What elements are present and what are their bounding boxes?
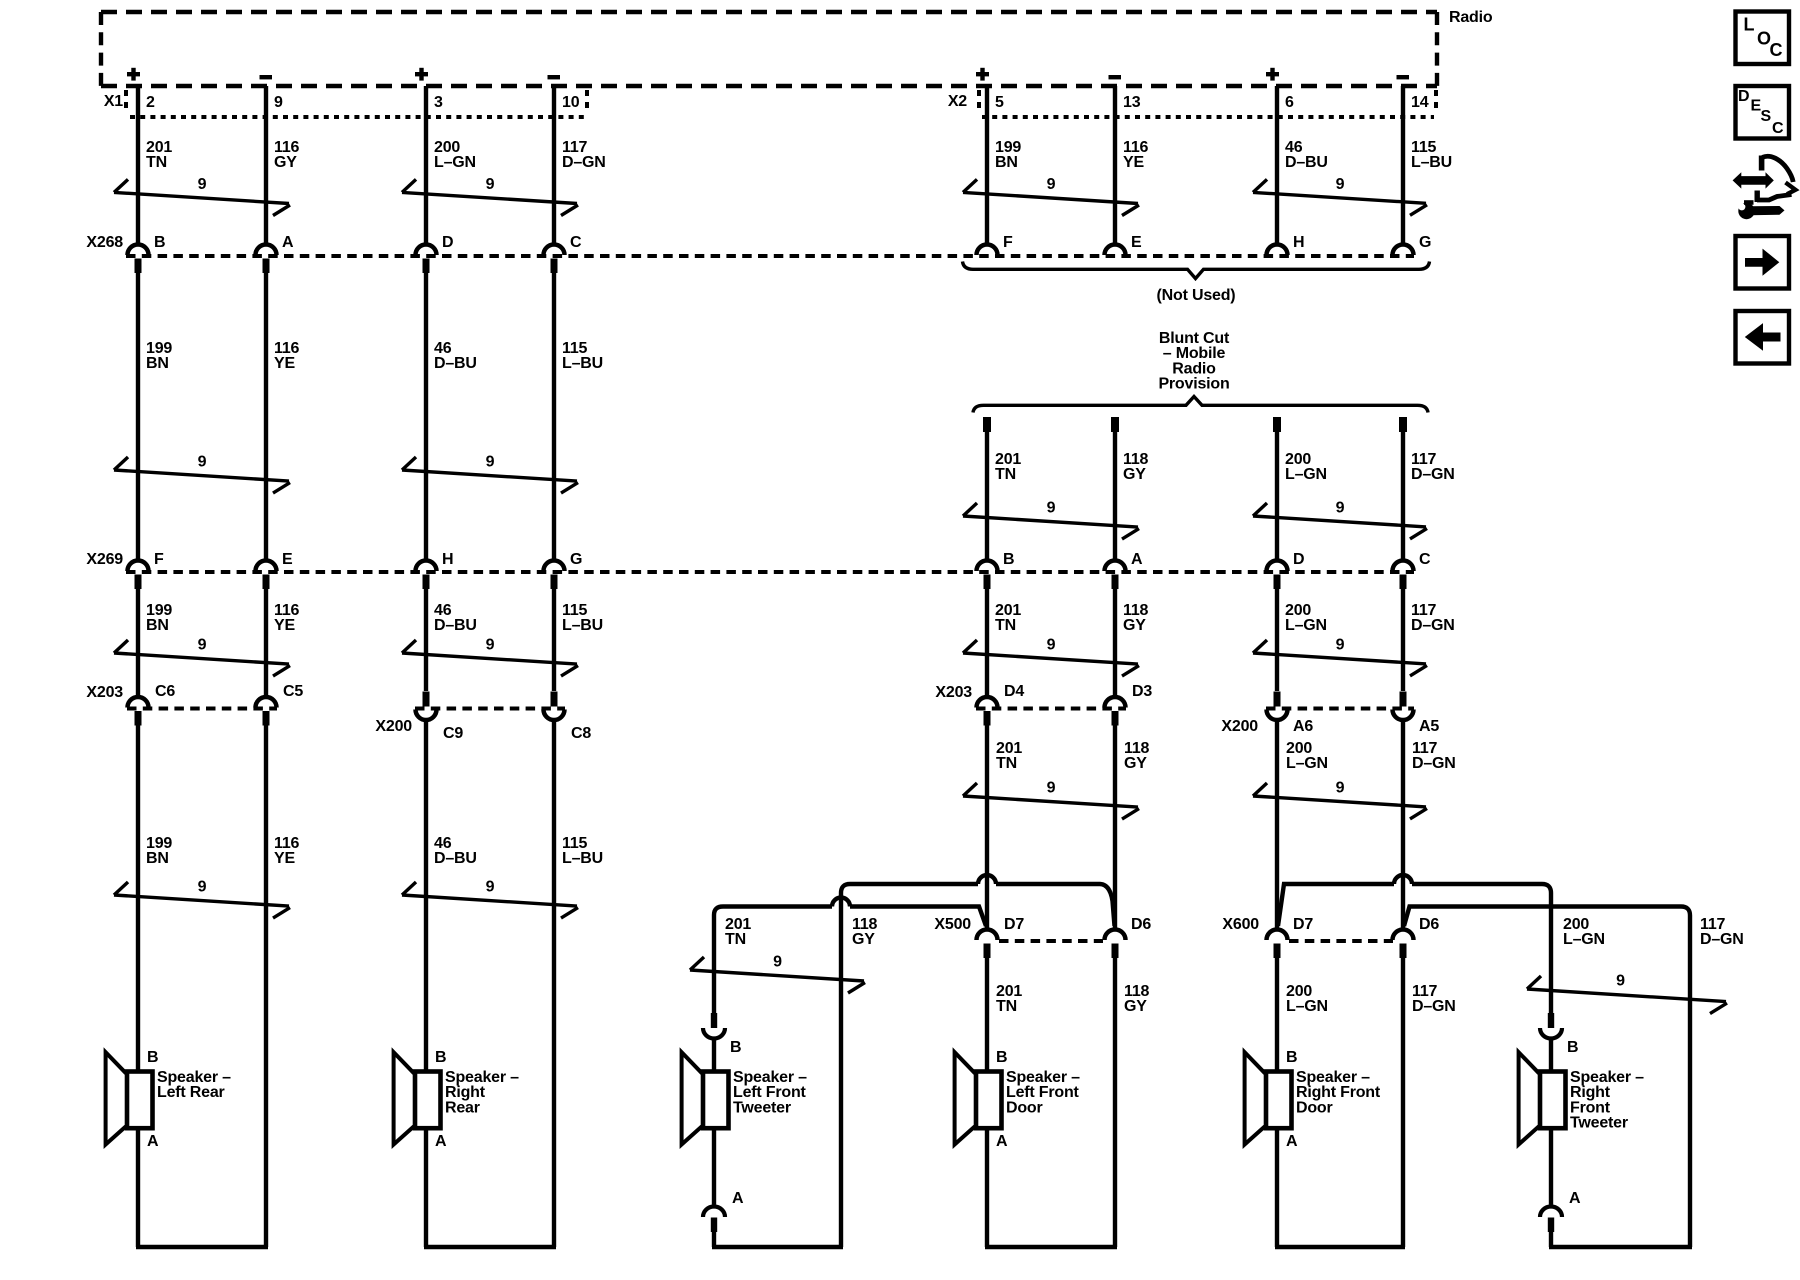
wire label 200 L&#8211;GN [1285, 602, 1327, 634]
svg-text:BN: BN [146, 617, 169, 634]
wire 115 L&#8211;BU from X1/X2 pin 14 to X268 [1401, 86, 1405, 243]
svg-text:TN: TN [995, 466, 1016, 483]
svg-text:L–GN: L–GN [1286, 755, 1328, 772]
svg-text:D–BU: D–BU [1285, 154, 1328, 171]
svg-text:GY: GY [274, 154, 297, 171]
twisted pair symbol [1527, 973, 1727, 1014]
svg-text:BN: BN [146, 850, 169, 867]
connector X269 pin D [1267, 551, 1305, 589]
pin number 13 [1123, 94, 1141, 111]
wire 200 L&#8211;GN from X500/X600 to door speaker [1275, 958, 1279, 1072]
svg-text:H: H [442, 551, 453, 568]
wire label 116 YE [274, 835, 300, 867]
polarity - above pin 13 [1109, 75, 1122, 79]
wire label 200 L-GN (right tweeter) [1563, 916, 1605, 948]
svg-text:Left Rear: Left Rear [157, 1084, 225, 1101]
connector X600 pin D6 [1393, 916, 1440, 958]
svg-text:9: 9 [1616, 973, 1625, 990]
svg-text:9: 9 [486, 879, 495, 896]
wire 116 YE from X268 to X269 [264, 273, 268, 559]
svg-text:A6: A6 [1293, 718, 1313, 735]
twisted pair symbol [690, 954, 865, 994]
svg-text:C6: C6 [155, 683, 175, 700]
wire label 116 YE [274, 602, 300, 634]
svg-text:TN: TN [725, 931, 746, 948]
wire branch left front tweeter - (118 GY) to X500 D6 [841, 875, 1115, 1247]
svg-text:D–BU: D–BU [434, 617, 477, 634]
connector X600 pin D7 [1267, 916, 1314, 958]
wire label 115 L&#8211;BU [1411, 139, 1452, 171]
twisted pair symbol [963, 500, 1139, 540]
svg-text:L–BU: L–BU [1411, 154, 1452, 171]
connector X600 label [1222, 916, 1259, 933]
speaker - left front tweeter [682, 1052, 808, 1144]
wire 116 YE from X1/X2 pin 13 to X268 [1113, 86, 1117, 243]
connector X269 pin C [1393, 551, 1432, 589]
inline connector break A (left front tweeter) [703, 1190, 744, 1247]
svg-text:9: 9 [274, 94, 283, 111]
connector X203 pin D4 [977, 683, 1025, 726]
connector X200 pin C8 [544, 692, 592, 743]
svg-text:D4: D4 [1004, 683, 1024, 700]
twisted pair symbol [114, 637, 290, 677]
speaker - right front door [1245, 1049, 1381, 1150]
bottom loop wire left rear speaker [136, 1245, 268, 1249]
twisted pair symbol [402, 176, 578, 216]
connector X268 pin B [128, 234, 166, 273]
icon wiring repair (arrows and wrench) [1733, 156, 1796, 220]
polarity - above pin 14 [1397, 75, 1410, 79]
svg-text:9: 9 [1047, 637, 1056, 654]
svg-text:H: H [1293, 234, 1304, 251]
connector X268 label [86, 234, 123, 251]
svg-text:YE: YE [274, 617, 295, 634]
svg-text:GY: GY [1123, 466, 1146, 483]
svg-text:9: 9 [1336, 637, 1345, 654]
svg-text:YE: YE [274, 355, 295, 372]
polarity + above pin 2 [127, 68, 140, 81]
svg-text:D: D [442, 234, 453, 251]
svg-text:L–GN: L–GN [1285, 466, 1327, 483]
svg-text:9: 9 [1336, 176, 1345, 193]
wire 200 L&#8211;GN from X1/X2 pin 3 to X268 [424, 86, 428, 243]
svg-text:5: 5 [995, 94, 1004, 111]
svg-text:9: 9 [1047, 500, 1056, 517]
svg-text:C: C [570, 234, 582, 251]
pin number 14 [1411, 94, 1429, 111]
svg-text:B: B [1286, 1049, 1297, 1066]
wire 201 TN from connector to X500/X600 [985, 723, 989, 928]
svg-text:C8: C8 [571, 725, 591, 742]
svg-text:(Not Used): (Not Used) [1157, 287, 1236, 304]
wire 46 D&#8211;BU from X269 down [424, 589, 428, 691]
svg-text:9: 9 [1047, 176, 1056, 193]
wire 115 L&#8211;BU from X268 to X269 [552, 273, 556, 559]
connector X269 pin H [416, 551, 454, 589]
svg-text:9: 9 [486, 637, 495, 654]
wire label 117 D&#8211;GN [1412, 740, 1456, 772]
svg-text:C5: C5 [283, 683, 303, 700]
svg-text:D: D [1293, 551, 1304, 568]
twisted pair symbol [1253, 637, 1427, 676]
svg-text:A: A [1131, 551, 1143, 568]
twisted pair symbol [963, 780, 1139, 820]
svg-text:9: 9 [486, 176, 495, 193]
connector X268 pin F (not used) [977, 234, 1014, 255]
twisted pair symbol [1253, 780, 1427, 819]
twisted pair symbol [114, 176, 290, 216]
connector X268 pin H (not used) [1267, 234, 1305, 255]
wire label 116 YE [1123, 139, 1149, 171]
bottom loop wire right front door speaker [1275, 1245, 1405, 1249]
svg-text:X200: X200 [1221, 718, 1258, 735]
wire label 117 D&#8211;GN [1412, 983, 1456, 1015]
wire 115 L&#8211;BU from connector to bottom loop [552, 721, 556, 1248]
connector X200 pin A6 [1267, 692, 1314, 736]
svg-text:2: 2 [146, 94, 155, 111]
wire label 115 L&#8211;BU [562, 835, 603, 867]
wire 118 GY from X500/X600 to bottom loop [1113, 958, 1117, 1247]
twisted pair symbol [1253, 176, 1427, 215]
svg-text:D–GN: D–GN [1412, 998, 1456, 1015]
svg-text:YE: YE [274, 850, 295, 867]
wire label 200 L&#8211;GN [1286, 983, 1328, 1015]
wire label 201 TN [996, 983, 1022, 1015]
wire label 201 TN [995, 451, 1021, 483]
svg-text:A: A [732, 1190, 744, 1207]
wire 115 L&#8211;BU from X269 down [552, 589, 556, 691]
not used brace [963, 262, 1430, 279]
svg-text:F: F [1003, 234, 1013, 251]
svg-text:Rear: Rear [445, 1099, 480, 1116]
not used text [1157, 287, 1236, 304]
svg-text:Radio: Radio [1449, 9, 1493, 26]
connector X500 dashed line [999, 939, 1103, 943]
connector X268 pin E (not used) [1105, 234, 1143, 255]
wire 46 D&#8211;BU from X268 to X269 [424, 273, 428, 559]
svg-text:G: G [570, 551, 582, 568]
bottom loop wire left front tweeter [712, 1245, 843, 1249]
svg-text:9: 9 [1336, 780, 1345, 797]
pin number 9 [274, 94, 283, 111]
svg-text:B: B [154, 234, 165, 251]
connector X500 pin D6 [1105, 916, 1152, 958]
polarity + above pin 6 [1266, 68, 1279, 81]
bottom loop wire right front tweeter [1549, 1245, 1692, 1249]
wire 201 TN from X1/X2 pin 2 to X268 [136, 86, 140, 243]
svg-text:A5: A5 [1419, 718, 1439, 735]
svg-text:9: 9 [486, 454, 495, 471]
svg-text:C: C [1419, 551, 1431, 568]
connector X203 label (right) [935, 684, 972, 701]
svg-text:Door: Door [1006, 1099, 1043, 1116]
connector X268 pin C [544, 234, 583, 273]
blunt cut brace [973, 397, 1428, 413]
wire from door speaker to bottom loop [1275, 1128, 1279, 1247]
svg-text:B: B [1567, 1039, 1578, 1056]
twisted pair symbol [114, 454, 290, 494]
wire 200 L&#8211;GN from blunt cut to X269 [1275, 432, 1279, 559]
svg-text:TN: TN [146, 154, 167, 171]
radio label [1449, 9, 1493, 26]
twisted pair symbol [963, 637, 1139, 677]
svg-text:E: E [282, 551, 293, 568]
connector X269 pin G [544, 551, 583, 589]
connector X268 pin G (not used) [1393, 234, 1432, 255]
wire label 201 TN [996, 740, 1022, 772]
wire 201 TN from X269 down [985, 589, 989, 696]
svg-text:L–GN: L–GN [1563, 931, 1605, 948]
svg-text:3: 3 [434, 94, 443, 111]
svg-text:YE: YE [1123, 154, 1144, 171]
svg-text:S: S [1761, 108, 1772, 125]
svg-text:L–BU: L–BU [562, 355, 603, 372]
svg-text:X2: X2 [948, 93, 967, 110]
wire 117 D&#8211;GN from X1/X2 pin 10 to X268 [552, 86, 556, 243]
wire label 199 BN [146, 340, 172, 372]
connector X269 pin A [1105, 551, 1144, 589]
svg-text:D6: D6 [1131, 916, 1151, 933]
svg-text:BN: BN [146, 355, 169, 372]
svg-text:9: 9 [198, 637, 207, 654]
svg-text:D–GN: D–GN [1412, 755, 1456, 772]
pin number 6 [1285, 94, 1294, 111]
polarity + above pin 3 [415, 68, 428, 81]
svg-text:L–GN: L–GN [1286, 998, 1328, 1015]
svg-text:D–GN: D–GN [562, 154, 606, 171]
wire from right front tweeter to break A [1549, 1128, 1553, 1204]
twisted pair symbol [402, 879, 578, 919]
svg-text:A: A [435, 1133, 447, 1150]
connector X269 dashed line [126, 570, 1414, 574]
svg-text:D–BU: D–BU [434, 355, 477, 372]
svg-text:C9: C9 [443, 725, 463, 742]
radio dashed outline box [101, 12, 1437, 86]
svg-text:GY: GY [1124, 998, 1147, 1015]
connector X268 dashed line [126, 254, 1414, 258]
wire 46 D&#8211;BU from X1/X2 pin 6 to X268 [1275, 86, 1279, 243]
wire from break to right front tweeter [1549, 1040, 1553, 1072]
wire label 46 D&#8211;BU [434, 835, 477, 867]
svg-text:GY: GY [1124, 755, 1147, 772]
icon box DESC [1736, 86, 1790, 139]
wire label 46 D&#8211;BU [1285, 139, 1328, 171]
wire label 117 D-GN (right tweeter) [1700, 916, 1744, 948]
svg-text:X269: X269 [86, 551, 123, 568]
svg-text:X200: X200 [375, 718, 412, 735]
wire label 46 D&#8211;BU [434, 340, 477, 372]
connector X200 label (right) [1221, 718, 1258, 735]
svg-text:TN: TN [996, 755, 1017, 772]
svg-text:B: B [730, 1039, 741, 1056]
svg-text:9: 9 [1047, 780, 1056, 797]
svg-text:9: 9 [1336, 500, 1345, 517]
connector X200 dashed line [415, 707, 565, 711]
svg-text:L–BU: L–BU [562, 850, 603, 867]
speaker - right front tweeter [1519, 1052, 1645, 1144]
wire label 118 GY [1123, 451, 1149, 483]
svg-text:X1: X1 [104, 93, 123, 110]
svg-text:D3: D3 [1132, 683, 1152, 700]
wire label 117 D&#8211;GN [1411, 602, 1455, 634]
svg-text:D–BU: D–BU [434, 850, 477, 867]
wire 199 BN from X269 down [136, 589, 140, 696]
connector X500 label [934, 916, 971, 933]
wire from door speaker to bottom loop [985, 1128, 989, 1247]
wire 201 TN from X500/X600 to door speaker [985, 958, 989, 1072]
svg-text:A: A [282, 234, 294, 251]
wire from left front tweeter to break A [712, 1128, 716, 1204]
wire from speaker to bottom loop [136, 1128, 140, 1247]
connector X600 dashed line [1289, 939, 1393, 943]
connector X200 dashed line (right) [1266, 707, 1414, 711]
svg-text:X203: X203 [935, 684, 972, 701]
wire label 116 YE [274, 340, 300, 372]
wire 117 D&#8211;GN from X500/X600 to bottom loop [1401, 958, 1405, 1247]
svg-text:D–GN: D–GN [1700, 931, 1744, 948]
svg-text:B: B [435, 1049, 446, 1066]
svg-text:A: A [996, 1133, 1008, 1150]
wire label 200 L&#8211;GN [434, 139, 476, 171]
bottom loop wire right rear speaker [424, 1245, 556, 1249]
connector X2 label [948, 93, 967, 110]
connector X500 pin D7 [977, 916, 1025, 958]
connector X1 strip dotted outline [126, 90, 587, 117]
speaker - left front door [955, 1049, 1081, 1150]
svg-text:X500: X500 [934, 916, 971, 933]
twisted pair symbol [114, 879, 290, 919]
connector X203 pin C6 [128, 683, 176, 726]
wire label 117 D&#8211;GN [1411, 451, 1455, 483]
svg-text:9: 9 [198, 454, 207, 471]
pin number 2 [146, 94, 155, 111]
wire 199 BN from connector to speaker [136, 723, 140, 1072]
blunt cut wire stub 118 GY [1111, 417, 1119, 432]
svg-text:GY: GY [852, 931, 875, 948]
svg-text:X600: X600 [1222, 916, 1259, 933]
svg-text:14: 14 [1411, 94, 1429, 111]
twisted pair symbol [402, 637, 578, 677]
connector X200 pin A5 [1393, 692, 1440, 736]
svg-text:A: A [1569, 1190, 1581, 1207]
wire label 199 BN [146, 835, 172, 867]
svg-text:G: G [1419, 234, 1431, 251]
connector X203 pin D3 [1105, 683, 1153, 726]
speaker - left rear [106, 1049, 232, 1150]
icon box LOC [1736, 12, 1790, 65]
inline connector break B (right front tweeter) [1540, 1013, 1578, 1056]
polarity - above pin 9 [260, 75, 273, 79]
inline connector break A (right front tweeter) [1540, 1190, 1581, 1247]
wire label 200 L&#8211;GN [1286, 740, 1328, 772]
svg-text:B: B [996, 1049, 1007, 1066]
wire label 201 TN (left tweeter) [725, 916, 751, 948]
pin number 3 [434, 94, 443, 111]
svg-text:GY: GY [1123, 617, 1146, 634]
connector X200 label [375, 718, 412, 735]
twisted pair symbol [1253, 500, 1427, 539]
icon box arrow right [1736, 236, 1790, 289]
connector X1 label [104, 93, 123, 110]
connector X203 dashed line (right) [976, 707, 1126, 711]
wire label 116 GY [274, 139, 300, 171]
wire 118 GY from blunt cut to X269 [1113, 432, 1117, 559]
wire 118 GY from connector to X500/X600 [1113, 723, 1117, 928]
wire 116 GY from X1/X2 pin 9 to X268 [264, 86, 268, 243]
bottom loop wire left front door speaker [985, 1245, 1117, 1249]
svg-text:L–GN: L–GN [434, 154, 476, 171]
svg-text:D–GN: D–GN [1411, 466, 1455, 483]
svg-text:D6: D6 [1419, 916, 1439, 933]
wire label 201 TN [146, 139, 172, 171]
svg-text:F: F [154, 551, 164, 568]
wire from speaker to bottom loop [424, 1128, 428, 1247]
blunt cut label [1158, 330, 1230, 393]
wire label 200 L&#8211;GN [1285, 451, 1327, 483]
wire label 118 GY [1124, 983, 1150, 1015]
wire label 201 TN [995, 602, 1021, 634]
svg-text:L–BU: L–BU [562, 617, 603, 634]
pin number 5 [995, 94, 1004, 111]
svg-text:D: D [1738, 88, 1749, 105]
connector X269 pin B [977, 551, 1015, 589]
svg-text:X268: X268 [86, 234, 123, 251]
connector X203 label [86, 684, 123, 701]
connector X203 pin C5 [256, 683, 304, 726]
polarity + above pin 5 [976, 68, 989, 81]
connector X269 label [86, 551, 123, 568]
svg-text:9: 9 [198, 879, 207, 896]
twisted pair symbol [402, 454, 578, 494]
svg-text:13: 13 [1123, 94, 1141, 111]
svg-text:D7: D7 [1004, 916, 1024, 933]
wire label 199 BN [146, 602, 172, 634]
wire 117 D&#8211;GN from X269 down [1401, 589, 1405, 691]
wire label 115 L&#8211;BU [562, 340, 603, 372]
svg-text:9: 9 [198, 176, 207, 193]
speaker - right rear [394, 1049, 520, 1150]
svg-text:A: A [147, 1133, 159, 1150]
polarity - above pin 10 [548, 75, 561, 79]
svg-text:D7: D7 [1293, 916, 1313, 933]
wire label 118 GY [1124, 740, 1150, 772]
wire label 199 BN [995, 139, 1021, 171]
svg-text:C: C [1772, 120, 1784, 137]
wire label 117 D&#8211;GN [562, 139, 606, 171]
wire 200 L&#8211;GN from connector to X500/X600 [1275, 721, 1279, 929]
wire branch right front tweeter + (200 L-GN) from X600 D7 [1278, 875, 1551, 1014]
svg-text:Tweeter: Tweeter [1570, 1115, 1628, 1132]
connector X203 dashed line [127, 707, 277, 711]
svg-text:C: C [1770, 40, 1783, 60]
wire 46 D&#8211;BU from connector to speaker [424, 721, 428, 1072]
svg-text:X203: X203 [86, 684, 123, 701]
wire label 46 D&#8211;BU [434, 602, 477, 634]
svg-text:TN: TN [996, 998, 1017, 1015]
wire branch right front tweeter - (117 D-GN) from X600 D6 [1404, 907, 1690, 1248]
svg-text:BN: BN [995, 154, 1018, 171]
icon box arrow left [1736, 311, 1790, 364]
connector X2 strip dotted outline [979, 90, 1436, 117]
wire label 115 L&#8211;BU [562, 602, 603, 634]
connector X269 pin F [128, 551, 165, 589]
blunt cut wire stub 117 D&#8211;GN [1399, 417, 1407, 432]
wire 116 YE from X269 down [264, 589, 268, 696]
wire 116 YE from connector to bottom loop [264, 723, 268, 1247]
svg-text:Provision: Provision [1158, 376, 1229, 393]
wire 118 GY from X269 down [1113, 589, 1117, 696]
wire label 118 GY (left tweeter) [852, 916, 878, 948]
